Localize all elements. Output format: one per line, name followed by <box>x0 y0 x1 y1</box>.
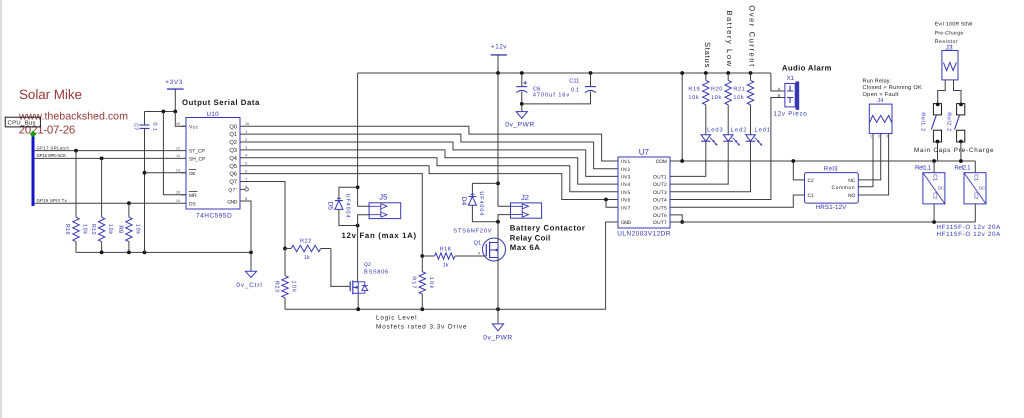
svg-text:Mosfets rated 3.3v Drive: Mosfets rated 3.3v Drive <box>376 324 467 331</box>
svg-text:Q2: Q2 <box>229 139 237 146</box>
svg-text:GP18 SPI0 SCK: GP18 SPI0 SCK <box>37 153 66 158</box>
wire 0v_PWR rail <box>285 308 606 310</box>
svg-text:Q2: Q2 <box>364 262 371 268</box>
svg-text:IN5: IN5 <box>621 190 631 196</box>
svg-text:COM: COM <box>656 159 667 165</box>
wire IN7 link <box>606 200 618 208</box>
label GP17 SRLatch <box>37 145 70 150</box>
node rail +12v stem <box>496 71 500 75</box>
svg-text:Rel3: Rel3 <box>824 166 838 173</box>
node Rel11 bottom <box>932 220 936 224</box>
LED Led3 <box>701 126 724 145</box>
svg-text:D4: D4 <box>460 197 467 206</box>
svg-text:GP19 SPI0 Tx: GP19 SPI0 Tx <box>37 198 68 203</box>
bus entry marker <box>30 131 36 138</box>
svg-text:OUT1: OUT1 <box>653 175 667 181</box>
wire J2 return <box>498 215 511 222</box>
label Output Serial Data <box>182 98 260 107</box>
wire 0v_Ctrl rail <box>76 251 251 253</box>
svg-text:C6: C6 <box>533 86 540 93</box>
svg-text:GND: GND <box>227 199 237 205</box>
svg-text:ST_CP: ST_CP <box>189 149 205 155</box>
wire Rel3 Common to J4 <box>858 134 873 187</box>
power +3V3 <box>165 79 183 89</box>
svg-text:C2: C2 <box>808 178 815 184</box>
svg-text:A: A <box>778 87 781 92</box>
svg-text:Battery Contactor: Battery Contactor <box>510 223 586 232</box>
svg-text:Logic Level: Logic Level <box>376 315 417 322</box>
wire C6 top lead <box>521 73 523 87</box>
wire OUT5 to Rel3 C1 <box>670 195 805 207</box>
relay Rel3 box <box>805 166 859 212</box>
CPU_Bus label box <box>5 117 40 127</box>
wire +12v fan drop <box>358 73 370 206</box>
node R10 bottom <box>100 251 104 255</box>
svg-text:Over Current: Over Current <box>748 5 757 67</box>
wire R20 bottom lead <box>727 105 729 135</box>
svg-text:C11: C11 <box>569 77 579 84</box>
svg-text:Evil 100R 50W: Evil 100R 50W <box>935 21 973 27</box>
title Solar Mike <box>19 87 82 102</box>
wire D5 anode link <box>339 209 358 225</box>
label HF115F relay types <box>937 224 1002 238</box>
svg-text:10k: 10k <box>82 224 88 235</box>
piezo X1 <box>778 75 799 109</box>
bus CPU_Bus <box>32 137 35 207</box>
node J3 right terminal <box>959 103 963 107</box>
svg-text:Open = Fault: Open = Fault <box>863 91 899 98</box>
wire Q2 source <box>357 293 359 309</box>
svg-text:3: 3 <box>245 146 247 150</box>
LED Led2 <box>723 126 747 145</box>
wire R19 bottom lead <box>705 105 707 135</box>
U7 name ULN2003V12DR <box>617 230 671 237</box>
svg-text:Rel2.1: Rel2.1 <box>954 164 971 171</box>
node OUT67 tie <box>680 220 684 224</box>
svg-text:B: B <box>778 93 781 98</box>
label GP19 SPI0 Tx <box>37 198 68 203</box>
node precharge right rail <box>959 159 963 163</box>
connector J5 <box>369 193 401 219</box>
ground 0v_PWR main <box>505 112 535 129</box>
svg-text:STS6NF20V: STS6NF20V <box>453 227 492 234</box>
svg-text:DS: DS <box>189 201 197 207</box>
wire R10 bottom lead <box>101 242 103 253</box>
U10 pin Vcc <box>189 124 198 130</box>
wire Rel3 NC to J4 <box>858 134 880 180</box>
node Q1 source rail <box>496 307 500 311</box>
svg-text:HF115F-O 12v 20A: HF115F-O 12v 20A <box>937 231 1002 238</box>
wire COM feed from rail <box>681 73 683 161</box>
wire OUT1 to Led3 <box>670 141 706 176</box>
svg-text:NC: NC <box>848 178 856 184</box>
svg-text:Pre-Charge: Pre-Charge <box>935 30 964 36</box>
svg-text:Led2: Led2 <box>731 126 748 133</box>
wire R9 top lead <box>128 203 130 217</box>
svg-text:Audio Alarm: Audio Alarm <box>782 64 832 73</box>
svg-text:GND: GND <box>621 220 631 226</box>
wire R20 top lead <box>727 73 729 80</box>
svg-text:R10: R10 <box>90 224 96 235</box>
wire J3 pin2 down <box>954 80 962 104</box>
svg-text:J2: J2 <box>521 193 529 202</box>
svg-text:Q7: Q7 <box>229 179 237 186</box>
wire R9 bottom lead <box>128 242 130 253</box>
node R22 junction <box>283 247 287 251</box>
wire R21 top lead <box>750 73 752 80</box>
wire ground drop <box>250 252 252 271</box>
wire J5 return <box>358 215 370 282</box>
node U10 GND join <box>249 251 253 255</box>
resistor R9 <box>117 217 140 241</box>
wire pwr ground drop q1 <box>497 309 499 324</box>
svg-text:OUT2: OUT2 <box>653 182 667 188</box>
U10 pin MR <box>189 192 198 199</box>
contact Rel1.2 <box>919 104 941 142</box>
svg-text:U7: U7 <box>639 148 650 157</box>
wire Q1 to IN2 <box>240 134 618 169</box>
label Logic Level <box>376 315 467 331</box>
svg-text:5: 5 <box>245 162 247 166</box>
svg-text:C1: C1 <box>808 193 815 199</box>
LED Led1 <box>746 126 771 145</box>
connector J4 <box>869 98 892 138</box>
wire Q2 to IN3 <box>240 142 618 176</box>
wire +12v contactor drop <box>498 73 511 206</box>
wire Rel1.2 to rail <box>937 142 939 161</box>
node C6 bottom <box>520 102 524 106</box>
svg-text:12v Piezo: 12v Piezo <box>774 111 808 118</box>
title www.thebackshed.com <box>18 111 128 123</box>
wire Q6 fan control <box>240 174 422 256</box>
svg-text:Status: Status <box>703 42 712 68</box>
label 12v Fan <box>342 231 417 240</box>
transistor Q1 STS6NF20V <box>453 227 505 261</box>
wire piezo A feed <box>771 73 785 91</box>
svg-text:R17: R17 <box>411 276 417 289</box>
svg-text:10k: 10k <box>107 224 113 235</box>
svg-text:GP17 SRLatch: GP17 SRLatch <box>37 145 70 150</box>
U10 pin DS <box>189 201 197 207</box>
node R18 junction <box>420 254 424 258</box>
wire +12v stem <box>497 55 499 73</box>
U10 pin ST_CP <box>189 149 205 155</box>
resistor R19 <box>688 80 709 104</box>
wire OUT2 to Led2 <box>670 141 728 184</box>
svg-text:10k: 10k <box>688 95 699 101</box>
wire Rel3 NO to J4 <box>858 134 888 195</box>
power +12v <box>491 44 508 55</box>
svg-text:Q3: Q3 <box>229 147 237 154</box>
svg-text:Led1: Led1 <box>755 126 772 133</box>
wire C7 bottom lead <box>144 128 146 252</box>
svg-text:C2: C2 <box>931 192 937 199</box>
svg-text:MR: MR <box>189 193 197 199</box>
svg-text:Rel1.1: Rel1.1 <box>915 164 932 171</box>
contact Rel2.2 <box>946 104 965 142</box>
wire U7 GND to rail <box>606 222 614 309</box>
svg-text:R21: R21 <box>733 87 745 93</box>
node Q2 source rail <box>356 307 360 311</box>
wire Q1 source <box>497 258 499 310</box>
label Run Relay <box>863 77 923 98</box>
wire R22 to Q2 gate <box>331 249 350 287</box>
resistor R10 <box>90 217 113 241</box>
ground 0v_PWR q1 <box>483 324 513 341</box>
wire R16 top lead <box>75 151 77 218</box>
svg-text:0.1: 0.1 <box>152 122 158 131</box>
node fan return <box>356 224 360 228</box>
svg-text:C1: C1 <box>931 174 937 181</box>
resistor R23 <box>273 249 296 310</box>
transistor Q2 BSS806 <box>350 262 389 294</box>
wire Q7 pump control <box>240 182 285 249</box>
node R10 tap <box>100 157 104 161</box>
svg-text:4700uf 16v: 4700uf 16v <box>533 92 571 99</box>
wire Rel3 C2 to rail <box>793 161 804 180</box>
node precharge left rail <box>932 159 936 163</box>
svg-text:Q5: Q5 <box>229 163 237 170</box>
svg-text:NO: NO <box>848 193 856 199</box>
U7 label <box>639 148 650 157</box>
svg-text:OUT4: OUT4 <box>653 198 667 204</box>
svg-text:OUT5: OUT5 <box>653 205 667 211</box>
U10 pin SH_CP <box>189 157 205 163</box>
svg-text:IN4: IN4 <box>621 182 631 188</box>
relay coil Rel1.1 <box>915 164 945 204</box>
wire C11 top lead <box>590 73 592 87</box>
svg-text:OUT6: OUT6 <box>653 213 667 219</box>
capacitor C6 <box>516 86 570 99</box>
svg-text:1: 1 <box>870 134 872 138</box>
svg-text:10k: 10k <box>711 95 722 101</box>
U7 left pin names <box>621 159 631 226</box>
wire OUT6 jog <box>670 215 682 222</box>
node R21 top <box>749 71 753 75</box>
wire C7 top lead <box>144 112 146 126</box>
svg-text:Q1: Q1 <box>229 131 237 138</box>
resistor R16 <box>64 217 87 241</box>
diode D4 <box>460 191 484 216</box>
svg-text:1k: 1k <box>443 263 449 269</box>
relay coil Rel2.1 <box>954 164 986 204</box>
resistor R17 <box>411 256 434 309</box>
wire Rel1.1 bottom <box>933 204 935 222</box>
IC U10 box <box>186 118 240 210</box>
wire Q0 to IN1 <box>240 126 618 161</box>
node 3v3 MR branch <box>162 110 166 114</box>
wire piezo B to OUT4 <box>670 98 785 200</box>
svg-text:14: 14 <box>176 199 180 203</box>
svg-text:Closed = Running OK: Closed = Running OK <box>863 84 923 91</box>
svg-text:HRS1-12V: HRS1-12V <box>816 204 847 211</box>
svg-text:4: 4 <box>478 251 480 255</box>
svg-text:6: 6 <box>245 169 247 173</box>
label Audio Alarm <box>782 64 832 73</box>
resistor R22 <box>285 238 331 260</box>
label Battery Low <box>725 10 734 67</box>
svg-text:Output Serial Data: Output Serial Data <box>182 98 260 107</box>
wire R10 top lead <box>101 158 103 217</box>
svg-text:SH_CP: SH_CP <box>189 157 205 163</box>
connector J3 <box>942 44 958 80</box>
svg-text:2: 2 <box>245 138 247 142</box>
wire Q1 drain <box>497 222 499 243</box>
ground 0v_Ctrl <box>236 271 262 289</box>
svg-text:Relay Coil: Relay Coil <box>510 234 551 243</box>
svg-text:2: 2 <box>878 134 880 138</box>
svg-text:+3V3: +3V3 <box>165 79 183 86</box>
svg-text:Q0: Q0 <box>229 123 237 130</box>
svg-text:X1: X1 <box>787 75 795 82</box>
svg-text:3: 3 <box>886 134 888 138</box>
svg-text:10k: 10k <box>291 280 297 293</box>
U10 name 74HC595D <box>196 213 232 220</box>
node 3v3 Vcc branch <box>173 110 177 114</box>
svg-text:1: 1 <box>245 130 247 134</box>
node COM branch <box>680 159 684 163</box>
wire R16 bottom lead <box>75 242 77 253</box>
node Rel2.2 bottom <box>959 140 963 144</box>
svg-text:R22: R22 <box>300 238 312 244</box>
node R20 top <box>726 71 730 75</box>
node D4 cathode tap <box>496 182 500 186</box>
svg-text:7: 7 <box>245 177 247 181</box>
connector J2 <box>511 193 542 218</box>
wire Q3 to IN4 <box>240 150 618 184</box>
svg-text:Common: Common <box>832 185 856 191</box>
svg-text:ULN2003V12DR: ULN2003V12DR <box>617 230 671 237</box>
svg-text:10k: 10k <box>135 224 141 235</box>
diode D5 <box>326 194 350 219</box>
svg-text:Rel2.2: Rel2.2 <box>946 112 952 132</box>
svg-text:C2: C2 <box>972 192 978 199</box>
node COM rail top <box>680 71 684 75</box>
label 12v Piezo <box>774 111 808 118</box>
wire R19 top lead <box>705 73 707 80</box>
wire Vcc feed <box>175 112 186 127</box>
svg-text:C7: C7 <box>133 123 139 130</box>
svg-text:74HC595D: 74HC595D <box>196 213 232 220</box>
svg-text:12: 12 <box>176 146 180 150</box>
svg-text:U10: U10 <box>207 111 220 118</box>
svg-text:Q1: Q1 <box>474 240 482 247</box>
wire C6-C11 link <box>522 92 591 104</box>
node Rel1.2 bottom <box>936 140 940 144</box>
capacitor C6 plus <box>523 81 527 85</box>
label Over Current <box>748 5 757 67</box>
svg-text:Main Caps Pre-Charge: Main Caps Pre-Charge <box>914 147 994 154</box>
resistor R20 <box>711 80 731 104</box>
svg-text:J5: J5 <box>379 193 387 202</box>
node D5 cathode tap <box>356 185 360 189</box>
capacitor C7 <box>133 122 158 131</box>
svg-text:16: 16 <box>176 122 180 126</box>
svg-text:4: 4 <box>245 154 247 158</box>
svg-text:10k: 10k <box>733 95 744 101</box>
U7 GND stub <box>614 221 618 223</box>
wire OE feed <box>145 172 187 174</box>
svg-text:OE: OE <box>189 171 195 176</box>
svg-text:10k: 10k <box>428 277 434 290</box>
svg-text:R9: R9 <box>117 225 124 234</box>
svg-text:UF4004: UF4004 <box>345 194 351 219</box>
node R9 tap <box>127 201 131 205</box>
node C7 bottom <box>143 251 147 255</box>
node IN6 IN7 tie <box>604 198 608 202</box>
wire pwr ground drop <box>521 104 523 112</box>
node C6 top <box>520 71 524 75</box>
svg-text:HF115F-O 12v 20A: HF115F-O 12v 20A <box>937 224 1002 231</box>
node R19 top <box>704 71 708 75</box>
wire Rel2.1 top <box>974 161 976 173</box>
U7 right pin names <box>653 159 667 226</box>
title date 2021-07-26 <box>19 125 75 137</box>
svg-text:Q4: Q4 <box>229 155 237 162</box>
svg-text:Led3: Led3 <box>707 126 724 133</box>
svg-text:Q6: Q6 <box>229 171 237 178</box>
svg-text:12v Fan (max 1A): 12v Fan (max 1A) <box>342 231 417 240</box>
wire Q5 to IN6 <box>240 166 618 200</box>
U10 left stubs <box>181 126 186 203</box>
wire +3V3 down <box>174 89 176 111</box>
wire COM rail <box>670 160 975 162</box>
svg-text:Solar Mike: Solar Mike <box>19 87 82 102</box>
svg-text:OUT3: OUT3 <box>653 190 667 196</box>
resistor R21 <box>733 80 753 104</box>
svg-text:BSS806: BSS806 <box>364 269 389 276</box>
U10 label <box>207 111 220 118</box>
svg-text:UF4004: UF4004 <box>478 191 484 216</box>
wire Q4 to IN5 <box>240 158 618 192</box>
svg-text:J4: J4 <box>877 98 884 104</box>
capacitor C11 <box>569 77 596 93</box>
wire OUT3 to Led1 <box>670 141 751 192</box>
svg-text:Q7': Q7' <box>228 188 237 194</box>
svg-text:R20: R20 <box>711 87 723 93</box>
svg-text:OUT7: OUT7 <box>653 220 667 226</box>
svg-text:IN7: IN7 <box>621 205 631 211</box>
svg-text:Vcc: Vcc <box>189 124 198 130</box>
node R16 tap <box>74 149 78 153</box>
svg-text:8: 8 <box>245 197 247 201</box>
U10 right pin names <box>228 123 237 193</box>
wire 3v3 horizontal <box>145 111 176 113</box>
node OE tap <box>143 171 147 175</box>
svg-text:15: 15 <box>245 122 249 126</box>
wire D5 cathode link <box>339 187 358 200</box>
wire C6 bottom lead <box>521 92 523 104</box>
svg-text:CPU_Bus: CPU_Bus <box>8 120 36 127</box>
svg-text:R16: R16 <box>64 224 70 235</box>
svg-text:1k: 1k <box>304 255 310 261</box>
svg-text:Rel1.2: Rel1.2 <box>919 112 925 132</box>
svg-text:0.1: 0.1 <box>571 87 579 94</box>
label Status <box>703 42 712 68</box>
svg-text:Battery Low: Battery Low <box>725 10 734 67</box>
U10 pin numbers <box>176 122 249 203</box>
svg-text:10: 10 <box>176 191 180 195</box>
svg-text:IN2: IN2 <box>621 167 631 173</box>
svg-text:0v_Ctrl: 0v_Ctrl <box>236 282 262 289</box>
svg-text:Run Relay: Run Relay <box>863 77 890 84</box>
svg-text:Max 6A: Max 6A <box>510 243 541 252</box>
label GP18 SPI0 SCK <box>37 153 66 158</box>
node R17 rail <box>420 307 424 311</box>
svg-text:11: 11 <box>176 154 180 158</box>
svg-text:0v_PWR: 0v_PWR <box>505 122 535 129</box>
node C11 top <box>589 71 593 75</box>
